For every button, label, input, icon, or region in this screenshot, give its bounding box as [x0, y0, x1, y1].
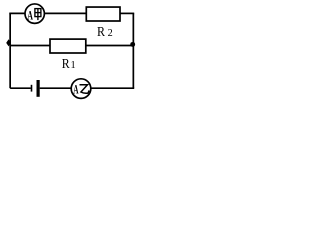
svg-text:R: R: [97, 25, 106, 40]
wire: right vertical: [132, 13, 134, 88]
svg-text:1: 1: [71, 60, 76, 71]
wire: left vertical: [9, 13, 11, 88]
node: right junction dot: [130, 42, 135, 47]
node: left junction dot: [6, 39, 11, 46]
wire: left junction to resistor R1: [10, 45, 50, 47]
wire: ammeter A甲 to resistor R2: [44, 12, 86, 14]
svg-text:R: R: [62, 57, 70, 72]
ammeter A乙 circle: [71, 79, 91, 99]
wire: resistor R1 to right junction: [86, 45, 134, 47]
background: [0, 0, 140, 103]
wire: bottom-left corner to battery: [10, 87, 31, 89]
ammeter A乙 glyph 乙: [80, 85, 90, 93]
svg-text:2: 2: [108, 28, 113, 39]
battery long thick plate: [37, 80, 40, 97]
wire: top-left corner to ammeter A甲: [9, 12, 25, 14]
battery short thin plate: [31, 85, 33, 92]
svg-text:A: A: [73, 83, 78, 97]
wire: battery to ammeter A乙: [40, 87, 72, 89]
wire: ammeter A乙 to bottom-right corner: [91, 87, 135, 89]
resistor R1 box: [50, 39, 86, 53]
ammeter A甲 circle: [25, 4, 44, 23]
svg-text:A: A: [27, 9, 33, 23]
wire: resistor R2 to top-right corner: [120, 12, 134, 14]
ammeter A甲 glyph 甲: [35, 9, 41, 21]
resistor R2 box: [86, 7, 120, 21]
